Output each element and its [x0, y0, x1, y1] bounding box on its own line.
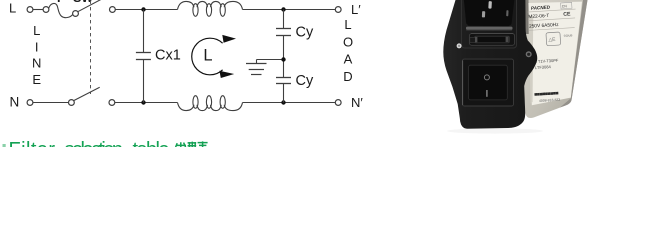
wire L to fuse	[33, 9, 43, 11]
wire N to switch	[33, 102, 69, 104]
switch SW blade (L pole)	[78, 0, 102, 12]
photo: fuse drawer	[469, 34, 514, 46]
node junction dot bottom-right (Cy tap)	[281, 100, 285, 104]
capacitor Cx1 top lead	[143, 10, 145, 53]
switch SW mechanical link (dashed)	[90, 1, 92, 95]
switch SW moving contact (L pole)	[73, 11, 79, 17]
node junction dot bottom-left (Cx1 tap)	[141, 100, 145, 104]
svg-text:LTF3084: LTF3084	[535, 64, 552, 70]
fuse F wavy element	[49, 3, 73, 17]
svg-text:L: L	[344, 17, 351, 32]
terminal N circle	[27, 100, 33, 106]
green caption bullet fragment at left edge	[3, 144, 6, 147]
photo: inlet left pin	[482, 11, 485, 17]
choke L circular arrow head top	[222, 35, 236, 43]
switch SW moving contact (N pole)	[69, 100, 75, 106]
svg-text:CN: CN	[562, 4, 568, 8]
photo: black front face	[443, 0, 537, 129]
photo: EMI filter module - drop shadow	[447, 128, 543, 133]
LOAD label	[343, 17, 353, 84]
photo: left flange screw	[457, 43, 462, 48]
photo: inlet right pin	[506, 10, 508, 16]
photo: rocker I mark	[486, 90, 488, 97]
ground symbol bars	[246, 63, 267, 65]
svg-text:△E: △E	[548, 37, 556, 43]
svg-text:table: table	[133, 139, 170, 147]
svg-text:F: F	[57, 0, 65, 5]
svg-text:L′: L′	[351, 2, 361, 17]
photo: rocker switch bezel	[462, 59, 513, 106]
photo: fuse drawer inner	[475, 36, 510, 43]
capacitor Cx1 plates	[136, 52, 151, 54]
fuse F holder left circle	[43, 7, 49, 13]
photo: rocker switch body	[469, 65, 508, 100]
photo: label printing	[527, 2, 581, 103]
photo: fuse drawer left notch	[470, 37, 476, 42]
svg-text:A: A	[344, 52, 353, 67]
terminal N' circle	[335, 100, 341, 106]
photo: metal can side	[521, 0, 588, 118]
terminal L circle	[27, 7, 33, 13]
photo: fuse drawer end highlights	[475, 37, 477, 42]
svg-text:N′: N′	[351, 95, 363, 110]
choke L bottom winding humps	[178, 103, 243, 111]
svg-text:Cy: Cy	[296, 25, 314, 41]
photo: metal edge shadow strip near black face	[522, 0, 529, 34]
capacitor Cx1 bottom lead	[143, 60, 145, 103]
node junction dot top-right (Cy tap)	[281, 7, 285, 11]
switch SW blade (N pole)	[74, 87, 100, 100]
svg-text:Filter: Filter	[9, 139, 56, 147]
photo: IEC inlet recess	[464, 0, 514, 26]
svg-text:selection: selection	[65, 139, 124, 147]
photo: rocker O mark	[484, 75, 489, 80]
capacitor Cy bottom plates	[276, 77, 291, 79]
choke L top winding loops	[193, 4, 198, 17]
svg-text:N: N	[32, 56, 41, 71]
green caption (cut off at bottom): Filter selection table	[9, 139, 170, 161]
svg-text:E: E	[32, 72, 41, 87]
svg-text:L: L	[9, 1, 16, 16]
svg-text:N: N	[10, 95, 20, 110]
wire ground to Cy midpoint	[257, 59, 282, 61]
photo: rocker switch bezel left highlight	[462, 61, 464, 106]
choke L bottom winding loops	[193, 96, 198, 109]
choke L top winding humps	[178, 1, 243, 9]
wire Cy midpoint	[283, 36, 285, 78]
LINE label	[32, 23, 41, 87]
svg-text:CE: CE	[563, 11, 571, 17]
capacitor Cy top plates	[276, 28, 291, 30]
switch SW fixed contact (L pole)	[110, 7, 116, 13]
svg-text:Cy: Cy	[296, 73, 314, 89]
svg-text:O: O	[343, 34, 353, 49]
wire top rail: choke to L'	[243, 9, 336, 11]
switch SW fixed contact (N pole)	[109, 100, 115, 106]
choke L circular arrow head bottom	[219, 71, 234, 78]
terminal L' circle	[335, 7, 341, 13]
photo: right flange screw	[526, 51, 532, 57]
svg-text:L: L	[33, 23, 40, 38]
photo: inlet ground pin	[488, 1, 492, 9]
capacitor Cy top lead from rail	[283, 10, 285, 29]
svg-text:Cx1: Cx1	[155, 48, 181, 64]
photo: label left-edge shadow	[528, 16, 533, 104]
node junction dot top-left (Cx1 tap)	[141, 7, 145, 11]
capacitor Cy bottom lead to rail	[283, 84, 285, 103]
svg-text:I: I	[35, 39, 39, 54]
wire bottom rail: choke to N'	[243, 102, 336, 104]
photo: inlet bottom highlight ledge	[466, 27, 513, 30]
photo: side label	[528, 2, 582, 106]
photo: fuse holder bezel	[462, 0, 517, 48]
wire bottom rail: switch to choke	[115, 102, 178, 104]
green caption CJK fragment (drawn strokes)	[176, 141, 208, 147]
svg-text:D: D	[343, 69, 352, 84]
svg-text:L: L	[203, 47, 212, 65]
photo: metal can right edge strip	[560, 0, 588, 108]
choke L circular arrow arc	[192, 38, 223, 75]
node junction dot Cy midpoint	[281, 57, 285, 61]
svg-text:c◎us: c◎us	[564, 33, 573, 38]
ground symbol stem	[256, 60, 258, 64]
wire top rail: switch to choke	[115, 9, 177, 11]
